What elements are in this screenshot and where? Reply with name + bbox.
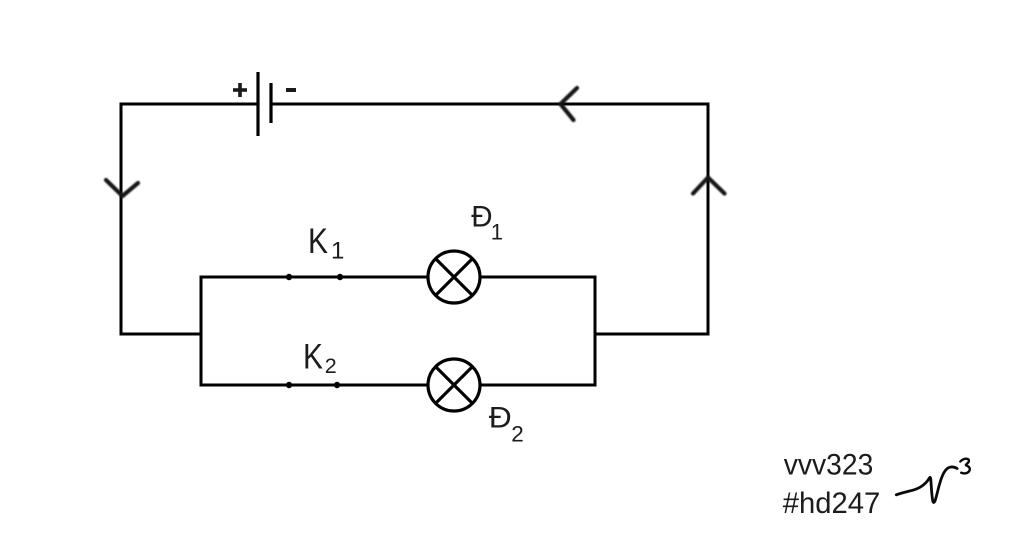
lamp D1 bbox=[428, 251, 480, 303]
current arrow up on right wire bbox=[693, 178, 725, 194]
svg-text:#hd247: #hd247 bbox=[783, 487, 881, 520]
wire bottom branch left bbox=[200, 384, 429, 387]
signature superscript 3 bbox=[960, 459, 970, 474]
current arrow down on left wire bbox=[106, 180, 138, 196]
wire left vertical bbox=[120, 103, 123, 336]
current arrow left on top wire bbox=[561, 88, 578, 120]
wire left feed bbox=[120, 333, 202, 336]
svg-text:2: 2 bbox=[325, 354, 337, 378]
svg-text:Đ: Đ bbox=[471, 201, 492, 234]
wire top left segment bbox=[121, 103, 258, 106]
svg-text:1: 1 bbox=[491, 219, 503, 244]
node left bar bbox=[200, 276, 203, 387]
node right bar bbox=[594, 276, 597, 387]
wire top branch right bbox=[480, 276, 597, 279]
switch K1 dot right bbox=[337, 274, 343, 280]
svg-text:2: 2 bbox=[511, 421, 524, 446]
wire top branch left bbox=[200, 276, 429, 279]
svg-text:K: K bbox=[303, 338, 323, 377]
wire top right segment bbox=[271, 103, 708, 106]
svg-text:Đ: Đ bbox=[489, 401, 512, 434]
svg-text:vvv323: vvv323 bbox=[784, 449, 874, 482]
switch K2 dot left bbox=[286, 382, 292, 388]
lamp D2 bbox=[428, 359, 480, 411]
wire bottom branch right bbox=[480, 384, 597, 387]
wire right vertical bbox=[707, 103, 710, 336]
svg-text:K: K bbox=[308, 222, 328, 261]
switch K2 dot right bbox=[334, 382, 340, 388]
battery negative plate bbox=[269, 83, 272, 123]
battery positive plate bbox=[256, 72, 259, 136]
signature squiggle bbox=[896, 467, 957, 502]
switch K1 dot left bbox=[286, 274, 292, 280]
battery minus label bbox=[286, 88, 296, 92]
wire right feed bbox=[595, 333, 710, 336]
battery plus label bbox=[233, 83, 247, 97]
svg-text:1: 1 bbox=[331, 238, 344, 265]
